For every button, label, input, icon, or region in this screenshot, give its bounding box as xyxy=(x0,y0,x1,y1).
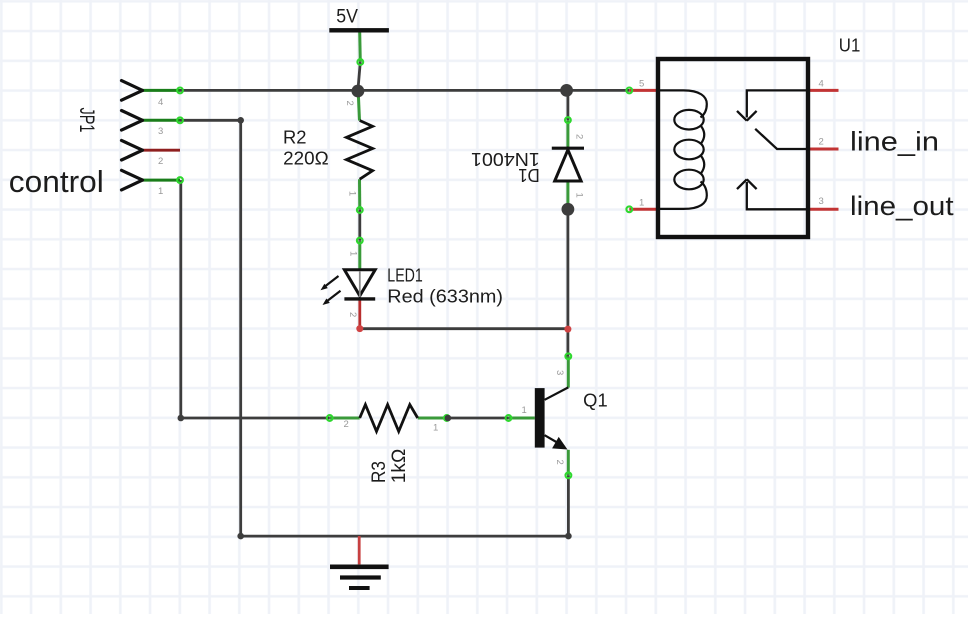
svg-text:5V: 5V xyxy=(336,7,358,28)
svg-text:Red (633nm): Red (633nm) xyxy=(387,286,503,306)
svg-text:1: 1 xyxy=(433,423,438,434)
svg-text:1N4001: 1N4001 xyxy=(471,149,540,169)
svg-text:2: 2 xyxy=(574,134,585,139)
svg-text:220Ω: 220Ω xyxy=(283,149,329,169)
svg-text:control: control xyxy=(9,164,104,199)
svg-text:R2: R2 xyxy=(283,128,307,148)
svg-text:2: 2 xyxy=(554,460,565,465)
svg-text:4: 4 xyxy=(819,79,824,90)
svg-text:2: 2 xyxy=(344,101,355,106)
svg-text:3: 3 xyxy=(554,370,565,375)
svg-text:1: 1 xyxy=(639,198,644,209)
svg-text:Q1: Q1 xyxy=(583,391,608,411)
svg-text:3: 3 xyxy=(158,126,163,137)
svg-text:3: 3 xyxy=(819,196,824,207)
svg-text:line_in: line_in xyxy=(850,127,939,157)
svg-text:LED1: LED1 xyxy=(387,265,423,285)
svg-text:1: 1 xyxy=(347,191,358,196)
svg-text:1: 1 xyxy=(574,193,585,198)
svg-text:JP1: JP1 xyxy=(75,108,99,133)
svg-text:2: 2 xyxy=(819,136,824,147)
svg-text:U1: U1 xyxy=(839,35,861,55)
svg-text:1: 1 xyxy=(522,405,527,416)
svg-text:2: 2 xyxy=(347,312,358,317)
svg-text:4: 4 xyxy=(158,97,163,108)
svg-text:1: 1 xyxy=(158,186,163,197)
svg-text:R3: R3 xyxy=(369,461,390,483)
svg-text:2: 2 xyxy=(344,419,349,430)
svg-text:line_out: line_out xyxy=(850,191,954,221)
svg-text:5: 5 xyxy=(639,79,644,90)
svg-text:1: 1 xyxy=(348,251,359,256)
svg-text:1kΩ: 1kΩ xyxy=(389,449,410,484)
svg-text:2: 2 xyxy=(158,156,163,167)
